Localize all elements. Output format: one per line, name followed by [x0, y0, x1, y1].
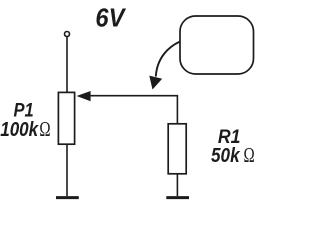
ground (left) — [56, 196, 79, 199]
svg-text:100k: 100k — [0, 119, 39, 141]
svg-text:6V: 6V — [95, 5, 126, 33]
svg-text:Ω: Ω — [244, 143, 255, 167]
wire R1 bottom to ground — [176, 174, 178, 196]
callout arrow curve — [156, 42, 180, 77]
callout arrowhead — [149, 76, 162, 90]
callout bubble — [180, 16, 254, 74]
wire P1 bottom to ground — [66, 144, 68, 196]
wiper arrowhead — [77, 91, 91, 101]
svg-text:50k: 50k — [211, 145, 240, 167]
potentiometer P1 body — [58, 92, 74, 144]
wiper wire (horizontal + corner down to R1) — [90, 96, 177, 124]
resistor R1 body — [168, 124, 186, 174]
ground (right) — [166, 196, 189, 199]
wire terminal to P1 top — [66, 37, 68, 93]
terminal (input node) — [65, 32, 70, 37]
svg-text:Ω: Ω — [39, 117, 50, 141]
